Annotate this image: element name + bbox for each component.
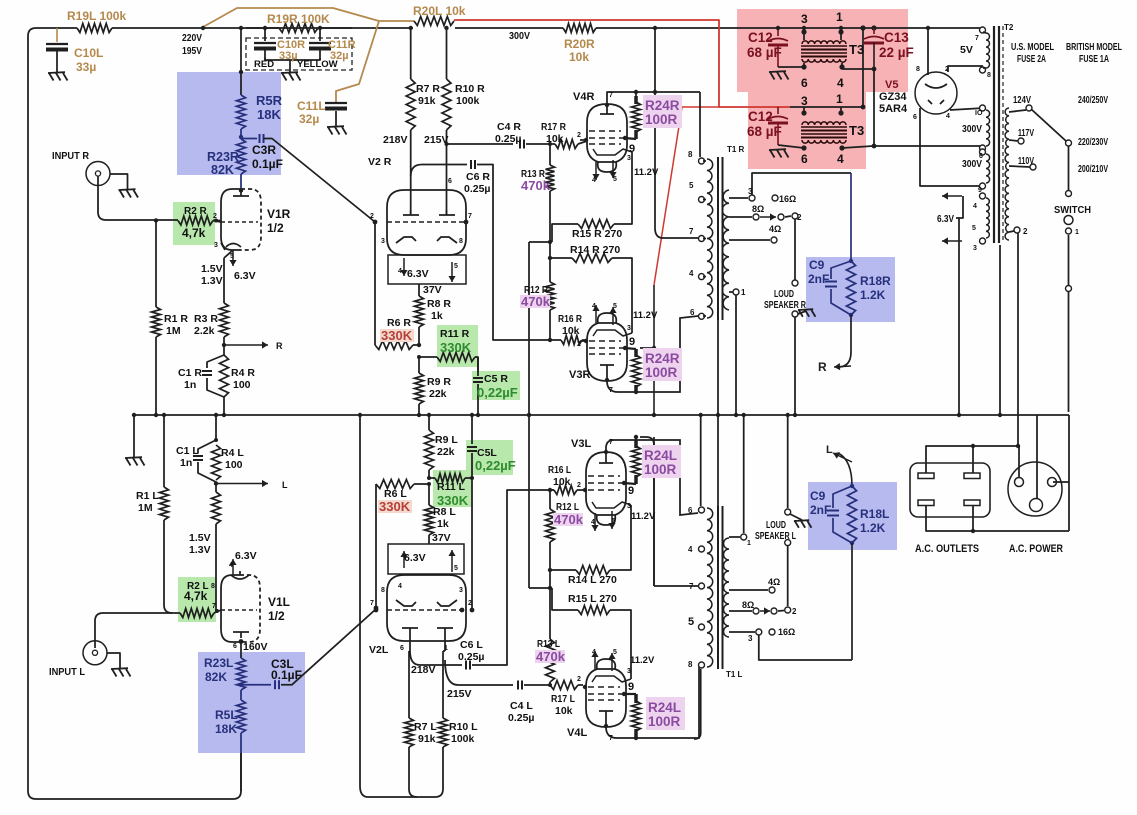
- wire rail across PSU: [737, 27, 908, 29]
- T2 300V winding 2: [980, 149, 986, 155]
- T1L secondary taps: [729, 536, 740, 538]
- svg-text:18K: 18K: [257, 107, 281, 122]
- svg-text:9: 9: [629, 336, 635, 348]
- label R24L bottom: [646, 697, 685, 730]
- svg-text:5V: 5V: [960, 44, 973, 56]
- capacitor C10L: [56, 28, 58, 42]
- wire 6.3V common to rail: [958, 241, 960, 415]
- wire R2R to grid: [213, 220, 221, 222]
- wire R9L from rail: [428, 415, 430, 430]
- svg-text:SPEAKER R: SPEAKER R: [764, 300, 807, 311]
- connector INPUT L: [83, 641, 107, 665]
- svg-text:215V: 215V: [447, 688, 472, 700]
- wire input L ground: [107, 653, 120, 668]
- resistor R10L 100k: [442, 651, 444, 718]
- svg-text:330K: 330K: [381, 328, 413, 343]
- wire orange feedback top: [203, 8, 414, 27]
- heater box V2R: [388, 255, 466, 284]
- svg-text:R14 R 270: R14 R 270: [570, 244, 620, 256]
- svg-text:3: 3: [627, 668, 631, 675]
- svg-text:6.3V: 6.3V: [407, 268, 429, 280]
- resistor R12L 470k: [549, 542, 551, 588]
- wire R18R down to R arrow: [838, 315, 851, 367]
- svg-text:C13: C13: [884, 30, 909, 45]
- wire top rail B+ left: [28, 28, 77, 120]
- T2 heater arrows: [942, 195, 962, 197]
- V4L heater arrows: [594, 651, 596, 669]
- V3L internal skirt: [592, 502, 631, 508]
- svg-text:33µ: 33µ: [279, 50, 298, 62]
- connector AC POWER: [1008, 462, 1062, 516]
- svg-text:YELLOW: YELLOW: [297, 59, 338, 70]
- svg-text:R3 R: R3 R: [194, 313, 218, 325]
- T1L core: [717, 506, 719, 669]
- wire R11R right to C5R: [475, 357, 478, 371]
- ground speaker L: [794, 519, 809, 522]
- wire red B+ to PSU: [454, 20, 790, 107]
- resistor R9R 22k: [418, 357, 420, 373]
- svg-text:0.25µ: 0.25µ: [495, 133, 522, 145]
- wire outlets bottom: [926, 505, 973, 531]
- svg-text:100: 100: [225, 459, 243, 471]
- svg-text:C3R: C3R: [252, 143, 276, 157]
- svg-text:L: L: [282, 480, 288, 490]
- capacitor C5L: [471, 415, 473, 444]
- svg-text:R24R: R24R: [645, 98, 680, 113]
- svg-text:3: 3: [627, 155, 631, 162]
- V2L heater arrows: [403, 551, 405, 568]
- svg-text:33µ: 33µ: [76, 60, 96, 74]
- T2 primary winding: [1005, 108, 1009, 240]
- wire V5 pin6 down: [920, 108, 980, 186]
- svg-text:6: 6: [448, 178, 452, 185]
- svg-text:2: 2: [370, 213, 374, 220]
- wire top rail right of R20R: [596, 27, 737, 29]
- wire L feedback arrow: [838, 453, 852, 486]
- svg-text:5: 5: [972, 225, 976, 232]
- T1L primary terminals: [699, 507, 705, 513]
- svg-text:A.C. OUTLETS: A.C. OUTLETS: [915, 543, 979, 555]
- wire C4R line: [447, 143, 514, 145]
- svg-text:6: 6: [913, 114, 917, 121]
- wire under caps: [265, 58, 320, 60]
- resistor R2R: [178, 216, 213, 225]
- wire R1R: [155, 221, 157, 308]
- wire top rail 300V section: [455, 27, 563, 29]
- highlight box pink PSU bottom: [748, 92, 866, 169]
- svg-text:2: 2: [577, 676, 581, 683]
- svg-text:6: 6: [400, 645, 404, 652]
- svg-text:8: 8: [916, 66, 920, 73]
- wire plate2 to R10L: [444, 634, 446, 651]
- V1L grid dashed: [221, 609, 257, 611]
- svg-text:4: 4: [688, 545, 693, 554]
- svg-text:8Ω: 8Ω: [752, 204, 764, 214]
- connector AC OUTLETS: [910, 463, 990, 517]
- svg-text:SWITCH: SWITCH: [1054, 205, 1091, 216]
- wire speakerR gnd link: [798, 311, 806, 314]
- arrow L feedback out: [216, 483, 268, 485]
- svg-text:100R: 100R: [648, 714, 681, 729]
- svg-text:11.2V: 11.2V: [633, 310, 658, 321]
- svg-text:R9 L: R9 L: [435, 434, 458, 446]
- resistor R24R top: [635, 92, 637, 99]
- T1R primary terminals: [699, 158, 705, 164]
- wire V5 pin4 to 300V top: [950, 108, 984, 110]
- svg-text:3: 3: [627, 503, 631, 510]
- transformer T1R primary coil: [707, 159, 713, 318]
- svg-text:0,22µF: 0,22µF: [477, 385, 518, 400]
- svg-text:6: 6: [690, 308, 695, 317]
- transformer T2 5V winding: [980, 27, 986, 33]
- wire speaker L terminal: [787, 415, 789, 508]
- wire R7R from rail: [410, 28, 412, 79]
- svg-text:7: 7: [609, 735, 613, 742]
- svg-text:R10 L: R10 L: [449, 721, 478, 733]
- wire secondary common to rail: [735, 295, 737, 415]
- svg-text:300V: 300V: [962, 123, 982, 135]
- highlight box green R2R: [173, 202, 215, 245]
- svg-text:11.2V: 11.2V: [630, 655, 655, 666]
- wire switch to AC power: [1068, 415, 1070, 531]
- capacitor C4L: [517, 681, 519, 690]
- svg-text:4Ω: 4Ω: [768, 577, 780, 587]
- svg-text:4: 4: [398, 583, 402, 590]
- V2R cathodes: [396, 237, 416, 243]
- svg-text:R19L 100k: R19L 100k: [67, 9, 126, 23]
- svg-text:A.C. POWER: A.C. POWER: [1009, 543, 1063, 555]
- wire mid ground rail: [134, 414, 1069, 416]
- T2 primary taps: [1009, 110, 1026, 112]
- V4L anode pin7 bottom: [599, 710, 613, 712]
- svg-text:1: 1: [747, 540, 751, 547]
- svg-text:FUSE 2A: FUSE 2A: [1017, 54, 1046, 65]
- connector INPUT R: [86, 162, 110, 186]
- svg-text:7: 7: [212, 603, 216, 610]
- highlight box blue R5R/R23R/C3R: [177, 72, 281, 175]
- capacitor C9 R: [831, 261, 851, 279]
- resistor R17R 10k: [550, 143, 555, 145]
- svg-text:3: 3: [381, 238, 385, 245]
- svg-text:V4R: V4R: [573, 91, 594, 103]
- wire lower T3 top bus: [790, 106, 863, 108]
- wire tap3 to R18R: [752, 173, 851, 195]
- wire V1L cathode bias: [215, 524, 217, 611]
- label R24R top: [643, 95, 682, 128]
- resistor R3R 2.2k: [220, 303, 229, 337]
- svg-text:7: 7: [370, 600, 374, 607]
- svg-text:R11 R: R11 R: [440, 328, 470, 340]
- wire speaker L to tap2: [787, 546, 789, 606]
- svg-text:91k: 91k: [418, 733, 436, 745]
- resistor R3L: [212, 492, 221, 524]
- highlight box pink PSU top: [737, 9, 908, 92]
- wire rail to R5R: [240, 28, 242, 72]
- svg-text:R17 L: R17 L: [551, 693, 575, 705]
- node R output: [222, 343, 226, 347]
- wire x863 drop to lower T3: [862, 28, 864, 107]
- resistor R20R: [563, 24, 596, 33]
- svg-text:R24R: R24R: [645, 351, 680, 366]
- svg-text:R7 L: R7 L: [414, 721, 437, 733]
- svg-text:470k: 470k: [521, 178, 551, 193]
- svg-text:10k: 10k: [562, 325, 580, 337]
- T2 300V winding 1: [980, 105, 986, 111]
- svg-text:6: 6: [979, 153, 983, 160]
- svg-text:5: 5: [230, 253, 234, 260]
- svg-text:4,7k: 4,7k: [182, 226, 206, 240]
- svg-text:117V: 117V: [1018, 128, 1034, 139]
- label R24L top: [642, 445, 681, 478]
- capacitor C1R / resistor R4R parallel: [207, 355, 224, 368]
- wire V3L anode to T1L pin: [606, 440, 698, 515]
- svg-text:5: 5: [613, 176, 617, 183]
- wire C3L diagonal to V2L grid: [281, 609, 376, 685]
- resistor R1L 1M: [160, 487, 169, 520]
- svg-text:V3L: V3L: [571, 438, 591, 450]
- resistor R10R 100k: [442, 79, 451, 130]
- svg-text:1/2: 1/2: [267, 221, 284, 235]
- svg-text:32µ: 32µ: [299, 112, 319, 126]
- wire T1L left vertical: [700, 415, 702, 506]
- svg-text:4: 4: [591, 519, 595, 526]
- capacitor C11R: [319, 28, 321, 41]
- resistor R6L 330K: [376, 480, 414, 489]
- resistor R11R 330K: [419, 356, 437, 358]
- svg-text:160V: 160V: [243, 641, 268, 653]
- svg-text:7: 7: [975, 35, 979, 42]
- svg-text:9: 9: [978, 187, 982, 194]
- capacitor C11L: [325, 102, 347, 104]
- switch arm 124V: [1031, 109, 1066, 141]
- svg-text:220V: 220V: [182, 32, 202, 44]
- svg-text:R24L: R24L: [644, 448, 677, 463]
- svg-text:6: 6: [801, 76, 808, 90]
- svg-text:U.S. MODEL: U.S. MODEL: [1011, 42, 1054, 53]
- transformer T3 bottom core: [801, 126, 847, 128]
- wire C4L line: [445, 660, 513, 685]
- svg-text:3: 3: [459, 587, 463, 594]
- highlight box blue C9/R18R: [806, 257, 895, 322]
- ground RED/YELLOW: [281, 71, 298, 74]
- V1R cathode: [226, 244, 241, 248]
- wire V3R grid pin2: [580, 340, 587, 342]
- svg-text:9: 9: [629, 143, 635, 155]
- wire V1L plate down to R23L: [239, 639, 244, 644]
- svg-text:4: 4: [398, 268, 402, 275]
- wire input R ground: [110, 174, 128, 189]
- svg-text:1: 1: [836, 92, 843, 106]
- resistor R8L 1k: [428, 484, 430, 505]
- T1R secondary coil: [722, 190, 729, 310]
- V3R grid dashes: [589, 340, 621, 342]
- svg-text:R5L: R5L: [215, 708, 238, 722]
- svg-text:100R: 100R: [644, 462, 677, 477]
- svg-text:8: 8: [987, 72, 991, 79]
- wire tap2 down to outlets: [1017, 233, 1019, 446]
- resistor R23L 82K: [237, 658, 246, 690]
- wire T1L secondary top to rail: [743, 415, 745, 533]
- resistor R12R 470k: [549, 242, 551, 282]
- svg-text:1k: 1k: [437, 518, 449, 530]
- svg-text:5: 5: [612, 518, 616, 525]
- svg-text:240/250V: 240/250V: [1078, 95, 1108, 106]
- wire R15R right to V4R cathode: [614, 152, 632, 224]
- wire top rail to 220V node: [112, 27, 413, 29]
- wire 16ohm tap to R18L: [759, 635, 852, 660]
- svg-text:330K: 330K: [379, 499, 411, 514]
- svg-text:R9 R: R9 R: [427, 376, 451, 388]
- svg-text:4: 4: [837, 152, 844, 166]
- svg-text:4: 4: [229, 562, 233, 569]
- svg-text:218V: 218V: [383, 134, 408, 146]
- svg-text:1: 1: [836, 10, 843, 24]
- svg-text:5: 5: [613, 649, 617, 656]
- highlight box green C5L: [466, 440, 513, 475]
- svg-text:R8 L: R8 L: [433, 506, 456, 518]
- V2R pin labels: [373, 220, 378, 225]
- svg-text:6.3V: 6.3V: [937, 213, 954, 225]
- wire C6L: [410, 651, 462, 665]
- svg-text:10k: 10k: [553, 476, 571, 488]
- svg-text:R24L: R24L: [648, 700, 681, 715]
- svg-text:INPUT R: INPUT R: [52, 150, 89, 162]
- V4L internal skirt: [592, 676, 631, 682]
- wire R14R right to V3R cathode: [612, 258, 632, 333]
- svg-text:LOUD: LOUD: [766, 520, 786, 531]
- resistor R14L 270: [550, 569, 576, 571]
- svg-text:3: 3: [748, 187, 753, 196]
- resistor R18R 1.2K: [847, 261, 856, 315]
- V3L grid dashes: [588, 475, 620, 477]
- wire R15L left leg: [552, 588, 578, 610]
- capacitor C6R: [470, 160, 472, 169]
- highlight box blue C9/R18L: [808, 482, 897, 550]
- ground C12 bottom: [769, 148, 786, 151]
- svg-text:4: 4: [973, 203, 977, 210]
- svg-text:220/230V: 220/230V: [1078, 137, 1108, 148]
- svg-text:2nF: 2nF: [808, 272, 829, 286]
- wire V2L left border x360: [359, 415, 361, 786]
- svg-text:68 µF: 68 µF: [747, 45, 782, 60]
- resistor R20L: [414, 17, 454, 26]
- V3L anode pin7: [599, 462, 613, 464]
- svg-text:7: 7: [689, 227, 694, 236]
- svg-text:10k: 10k: [569, 50, 589, 64]
- resistor R24R bottom: [634, 349, 638, 357]
- svg-text:195V: 195V: [182, 45, 202, 57]
- transformer T1L primary coil: [707, 508, 713, 667]
- svg-text:T3: T3: [849, 123, 864, 138]
- svg-text:2: 2: [577, 482, 581, 489]
- svg-text:R8 R: R8 R: [427, 298, 451, 310]
- resistor R14R 270: [550, 257, 572, 259]
- svg-text:R1 L: R1 L: [136, 490, 159, 502]
- svg-text:1n: 1n: [184, 379, 196, 391]
- svg-text:R: R: [276, 341, 283, 351]
- capacitor C5R: [477, 357, 479, 376]
- resistor R23R 82K: [237, 139, 246, 174]
- T3 bottom pins: [801, 110, 806, 115]
- T3 bottom windings: [802, 122, 846, 125]
- T3 top pins: [801, 29, 806, 34]
- svg-text:22k: 22k: [429, 388, 447, 400]
- svg-text:6: 6: [233, 643, 237, 650]
- T3 top windings: [802, 41, 846, 44]
- svg-text:2: 2: [792, 607, 797, 616]
- wire x529 junction L: [529, 587, 550, 589]
- wire C4L to R17L: [524, 684, 550, 686]
- svg-text:11.2V: 11.2V: [631, 511, 656, 522]
- wire R24R to grid9: [625, 138, 636, 139]
- svg-text:R4 L: R4 L: [221, 447, 244, 459]
- svg-text:R11 L: R11 L: [437, 481, 466, 493]
- V5 plates: [925, 84, 947, 88]
- wire orange branch to C11L: [336, 21, 379, 102]
- svg-text:R18L: R18L: [860, 507, 889, 521]
- svg-text:470k: 470k: [536, 649, 566, 664]
- node 220V: [201, 26, 205, 30]
- wire plate2 V2R / 215V node: [446, 130, 448, 215]
- T2 6.3V winding lower: [980, 193, 986, 199]
- svg-text:R5R: R5R: [256, 93, 283, 108]
- svg-text:4: 4: [689, 269, 694, 278]
- wire 6.3V bracket: [956, 196, 963, 218]
- V1L cathode plate bottom: [233, 631, 249, 633]
- wire plate1 V2R: [410, 130, 412, 215]
- svg-text:1/2: 1/2: [268, 609, 285, 623]
- svg-text:C11L: C11L: [297, 99, 326, 113]
- svg-text:R16 R: R16 R: [558, 313, 582, 325]
- svg-text:7: 7: [689, 582, 694, 591]
- resistor R5L 18K: [240, 690, 242, 700]
- capacitor C13: [860, 25, 865, 30]
- svg-text:1.2K: 1.2K: [860, 288, 886, 302]
- svg-text:6: 6: [688, 506, 693, 515]
- svg-text:100R: 100R: [645, 112, 678, 127]
- svg-text:1M: 1M: [138, 502, 153, 514]
- highlight box blue R23L/C3L/R5L: [198, 652, 305, 753]
- svg-text:R2 R: R2 R: [184, 206, 208, 217]
- svg-text:100k: 100k: [456, 95, 480, 107]
- svg-text:5: 5: [688, 616, 694, 628]
- svg-text:FUSE 1A: FUSE 1A: [1079, 54, 1109, 65]
- svg-text:R4 R: R4 R: [231, 367, 255, 379]
- svg-text:4,7k: 4,7k: [184, 589, 208, 603]
- V2R heater arrows: [403, 258, 405, 276]
- wire into R18R: [850, 173, 852, 261]
- resistor R24L top: [635, 437, 637, 442]
- wire R24R bottom to grid: [625, 348, 636, 349]
- svg-text:C6 L: C6 L: [460, 639, 483, 651]
- wire V4L anode to T1L pin8: [606, 667, 699, 738]
- ground INPUT R: [119, 188, 136, 191]
- svg-text:5AR4: 5AR4: [879, 103, 908, 115]
- V4L grid pin2: [583, 686, 586, 688]
- resistor R17L 10k: [550, 681, 578, 690]
- svg-text:11.2V: 11.2V: [634, 167, 659, 178]
- svg-text:T3: T3: [849, 42, 864, 57]
- svg-text:C4 R: C4 R: [497, 121, 521, 133]
- tube V3L: [586, 452, 626, 515]
- capacitor C10R: [264, 28, 266, 41]
- svg-text:T1 L: T1 L: [726, 670, 743, 679]
- svg-text:R10 R: R10 R: [455, 83, 485, 95]
- svg-text:C1 L: C1 L: [176, 445, 199, 457]
- wire R10R from rail: [446, 28, 448, 79]
- svg-text:4: 4: [592, 177, 596, 184]
- wire speaker R terminal: [794, 219, 796, 280]
